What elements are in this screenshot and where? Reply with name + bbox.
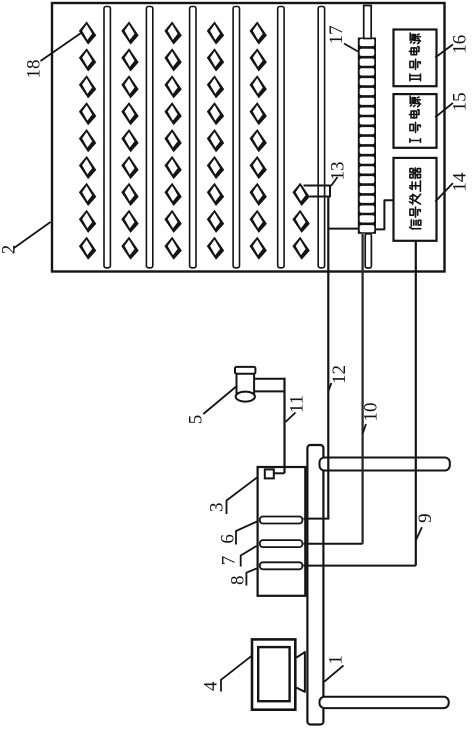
reference numeral 4 with leader [201, 656, 252, 692]
divider bar 3 [190, 7, 196, 268]
power supply II box 16 [394, 30, 437, 87]
analyzer box 3 [258, 467, 306, 596]
sensor diamond column 13 [292, 183, 309, 260]
pipe 11 horizontal [255, 379, 286, 392]
divider bar 5 [278, 7, 284, 268]
apparatus enclosure box 2 [52, 3, 445, 272]
svg-text:15: 15 [449, 92, 470, 111]
label text: signal generator (box 14) [409, 168, 420, 229]
display mount wedge [297, 652, 305, 692]
power supply I box 15 [394, 94, 437, 148]
support pillar 1 [307, 445, 323, 725]
reference numeral 11 with leader [286, 395, 308, 422]
reference numeral 12 with leader [328, 365, 350, 392]
reference numeral 8 with leader [227, 569, 256, 586]
reference numeral 5 with leader [185, 387, 236, 425]
svg-text:12: 12 [329, 365, 350, 384]
signal generator box 14 [394, 158, 437, 241]
slot 7 [260, 540, 303, 547]
divider bar 6 [318, 7, 324, 268]
reference numeral 16 with leader [435, 35, 470, 58]
slot 6 [260, 517, 303, 524]
wire clamp to coil [328, 228, 358, 230]
svg-text:11: 11 [286, 395, 307, 413]
reference numeral 2 with leader [0, 222, 51, 254]
diamond specimen column 4 (18) [207, 21, 224, 259]
slot 8 [260, 562, 303, 569]
reference numeral 15 with leader [435, 92, 470, 117]
reference numeral 13 with leader [328, 162, 349, 187]
svg-text:8: 8 [227, 575, 248, 585]
reference numeral 3 with leader [207, 478, 258, 515]
svg-text:10: 10 [360, 403, 381, 422]
svg-text:17: 17 [326, 25, 347, 44]
reference numeral 18 with leader [24, 33, 82, 79]
divider bar 4 [233, 7, 239, 268]
diamond specimen column 1 (18) [79, 21, 96, 259]
diamond specimen column 3 (18) [164, 21, 181, 259]
reference numeral 6 with leader [218, 522, 257, 545]
svg-text:1: 1 [326, 655, 347, 665]
reference numeral 10 with leader [360, 403, 381, 435]
inlet port square on box 3 [265, 469, 274, 478]
upper arm bracket [320, 458, 450, 471]
svg-text:7: 7 [218, 556, 239, 566]
svg-text:4: 4 [201, 681, 222, 691]
display unit 4 outer [252, 639, 295, 709]
svg-text:14: 14 [449, 172, 470, 192]
reference numeral 1 with leader [324, 655, 346, 682]
divider bar 1 [104, 7, 110, 268]
divider bar 2 [146, 7, 152, 268]
label text: power supply II (box 16) [409, 33, 420, 81]
sensor clamp wire 13 [304, 186, 331, 197]
reference numeral 9 with leader [415, 513, 436, 541]
lower arm bracket [320, 697, 449, 708]
wire 10 coil rod to slot 7 [304, 234, 363, 544]
svg-text:5: 5 [185, 415, 206, 425]
diamond specimen column 5 (18) [250, 21, 267, 259]
reference numeral 17 with leader [326, 25, 358, 51]
svg-text:9: 9 [415, 513, 436, 523]
wire coil to signal generator [376, 200, 394, 229]
coil top rod [364, 6, 372, 39]
pipe 11 vertical [274, 378, 285, 474]
svg-text:18: 18 [24, 60, 45, 79]
wire 12 sensor to slot 6 [304, 197, 330, 519]
reference numeral 7 with leader [218, 546, 256, 567]
exciter coil 17 [358, 38, 376, 234]
label text: power supply I (box 15) [409, 96, 420, 142]
svg-text:3: 3 [207, 503, 228, 513]
coil bottom rod [365, 234, 371, 268]
display unit 4 inner screen [258, 647, 289, 701]
pump cylinder 5 [235, 367, 255, 402]
wire 9 signal generator to slot 8 [304, 241, 416, 566]
diamond specimen column 2 (18) [121, 21, 138, 259]
reference numeral 14 with leader [435, 172, 470, 202]
